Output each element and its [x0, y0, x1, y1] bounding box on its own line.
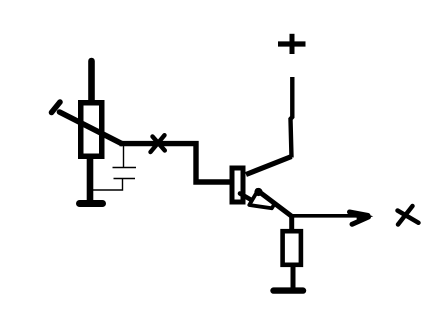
transistor Q1 base bar [232, 168, 243, 202]
resistor R2 (right) body [283, 231, 301, 265]
power +V symbol [278, 34, 306, 54]
arrow tail stroke of variable-resistor arrow [52, 102, 61, 113]
transistor Q1 emitter arrowhead (open triangle) [249, 191, 274, 208]
output node X mark (right) [398, 206, 419, 225]
battery B1 (thin sketch): top lead [123, 146, 125, 168]
wire: output arrow shaft [290, 214, 357, 218]
wire: top lead of resistor R2 [289, 214, 294, 230]
battery B1 plate (top) [113, 167, 137, 169]
ground (right) [274, 287, 304, 293]
wire: node A to transistor base (with corner) [120, 144, 232, 182]
wire: top lead of left resistor R1 [88, 61, 95, 102]
wire: collector up to supply [291, 77, 293, 158]
battery B1 bottom lead [92, 179, 123, 191]
transistor Q1 emitter line [258, 191, 293, 217]
resistor R1 (left, variable) body [81, 103, 102, 157]
pen blob at emitter arrow start [254, 188, 262, 196]
output arrowhead [350, 212, 369, 224]
wire: bottom lead of R2 [291, 265, 296, 288]
wire: bottom lead of R1 [87, 157, 94, 201]
ground (left) [80, 200, 103, 207]
node X mark on base wire [151, 135, 165, 152]
transistor Q1 emitter jog from base bar [240, 194, 251, 200]
battery B1 plate (bottom) [114, 178, 136, 180]
transistor Q1 collector diagonal [246, 157, 292, 175]
arrow shaft: diagonal through R1 [60, 112, 122, 144]
